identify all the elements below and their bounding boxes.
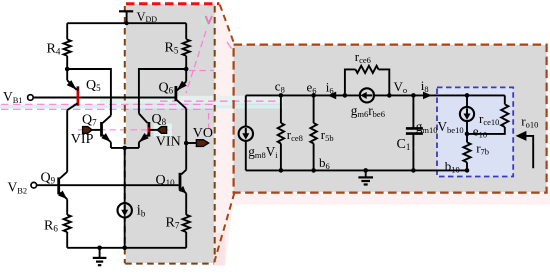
resistor R5 <box>185 23 187 39</box>
wire emitter join rail <box>111 147 139 149</box>
inner blue dashed box fill <box>437 87 513 176</box>
pale pink band below model box <box>231 194 550 205</box>
pink patch bottom of beam <box>214 233 226 266</box>
current source gm10Vbe10 <box>460 95 474 133</box>
left box right edge (brown dashed) <box>214 6 216 262</box>
wire model bottom rail <box>246 169 468 171</box>
callout slant top <box>220 5 235 45</box>
pink guide line C (input terminals) <box>78 129 173 131</box>
node Q8 base red tick <box>147 127 150 132</box>
right dashed model box gray fill <box>234 45 547 192</box>
transistor Q9 (NPN) <box>58 172 67 215</box>
resistor R6 <box>64 215 71 232</box>
node R5 bottom junction <box>184 67 189 72</box>
terminal VIP pad <box>83 127 92 134</box>
ground (model) <box>358 170 373 184</box>
node blue box top <box>465 93 470 98</box>
wire VIP to Q7 base <box>92 129 102 131</box>
pink guide line B <box>1 103 213 105</box>
mint ghost patch near top-right of left box <box>201 16 215 25</box>
node tail junction <box>122 146 127 151</box>
resistor R4 <box>66 23 68 39</box>
left box left edge (brown dashed) <box>124 6 126 263</box>
node Vo <box>411 93 416 98</box>
transistor Q5 (PNP) <box>67 69 78 172</box>
svg-text:VIN: VIN <box>156 135 181 150</box>
terminal VB2 circle <box>31 182 37 188</box>
terminal VO arrow <box>196 140 208 147</box>
svg-text:VIP: VIP <box>71 132 94 147</box>
resistor rce6 (feedback loop) <box>345 66 389 96</box>
wire R4-node to Q7 collector <box>67 69 111 116</box>
pink guide line A <box>160 100 281 102</box>
node C1 bottom <box>411 168 416 173</box>
resistor rce8 <box>278 95 284 170</box>
transistor Q10 (NPN mirrored) <box>179 170 187 215</box>
callout slant bottom <box>214 193 235 264</box>
wire VO tap <box>186 142 196 144</box>
wire VB2 base line <box>37 184 179 186</box>
resistor rce10 <box>467 95 508 133</box>
left box top edge (red dashed) <box>126 2 219 5</box>
pink guide dash H <box>189 70 214 72</box>
node rce8 bottom <box>279 168 284 173</box>
ground (left circuit) <box>93 248 107 265</box>
guide band cyan <box>0 105 283 109</box>
current source ib <box>118 148 132 248</box>
transistor Q6 (PNP) <box>176 69 187 143</box>
node c8 <box>279 93 284 98</box>
blue dashed box border <box>437 87 513 176</box>
left dashed zoom-source box gray fill <box>126 4 215 263</box>
node e10 <box>465 132 470 137</box>
wire Q6 collector to Q10 <box>185 143 187 170</box>
node r5b bottom (b6) <box>311 168 316 173</box>
wire VIN to Q8 base <box>149 129 157 131</box>
node ground tap <box>97 246 102 251</box>
resistor R7 <box>183 215 190 232</box>
terminal VIN pad <box>157 127 166 134</box>
node e6 <box>311 93 316 98</box>
wire model top rail <box>246 94 505 96</box>
terminal VB1 circle <box>28 95 34 101</box>
left box bottom edge (brown dashed) <box>125 263 213 265</box>
current source gm6 rbe6 <box>360 88 374 102</box>
node b10 <box>465 168 470 173</box>
wire VB1 base line <box>33 97 176 99</box>
transistor Q7 (NPN) <box>101 116 111 148</box>
node VO junction <box>184 141 189 146</box>
arrow i6 current <box>328 92 337 100</box>
resistor r7b <box>463 134 470 171</box>
pink guide dash F <box>227 42 234 52</box>
node ib bottom <box>122 246 127 251</box>
pink guide diagonal D <box>186 31 206 93</box>
resistor r5b <box>310 95 316 170</box>
magnifier beam wedge (pink) <box>214 5 235 266</box>
cyan halo behind VIN pad <box>154 124 173 138</box>
node rce6 left leg <box>343 93 348 98</box>
pink guide vertical E <box>208 113 210 129</box>
node R4 bottom junction <box>65 67 70 72</box>
node rce6 right leg <box>387 93 392 98</box>
guide band cyan 2 <box>100 96 283 104</box>
pink guide line B2 <box>1 108 213 110</box>
capacitor C1 <box>406 95 423 170</box>
svg-text:VO: VO <box>193 126 213 141</box>
wire bottom rail <box>67 247 186 249</box>
model box border (rust dashed) <box>234 45 547 193</box>
wire R5-node to Q8 collector <box>139 69 186 114</box>
node model ground tap <box>363 168 368 173</box>
node VDD supply symbol <box>119 10 133 12</box>
transistor Q8 (NPN mirrored) <box>139 114 149 148</box>
current source gm8Vi <box>239 95 253 170</box>
arrow ro10 looking-in <box>516 131 534 168</box>
arrow i8 current <box>423 92 432 100</box>
wire top VDD rail <box>67 22 186 24</box>
pink guide dash G <box>206 16 210 24</box>
